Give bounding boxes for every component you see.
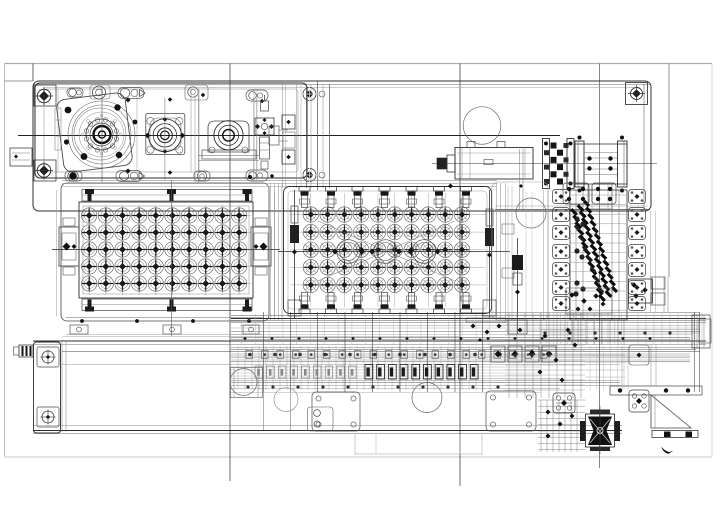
right band extra lines: [585, 354, 625, 356]
gusset foot: [652, 431, 698, 438]
motor vertical centerline: [101, 87, 103, 182]
transfer circles: [230, 369, 257, 396]
dark cluster below tool block: [569, 292, 575, 298]
left tray outer frame: [61, 183, 269, 321]
left plate rail clamps dark: [85, 189, 94, 201]
bottom rail left connector: [19, 345, 33, 357]
center plate outline: [284, 187, 492, 314]
tool block diagonal bar cascade: [570, 208, 578, 216]
pad column right of tool block: [629, 190, 646, 204]
shaft coupling flanged: [575, 144, 627, 184]
dark bolt diamonds bottom row: [126, 169, 131, 174]
flange bearing B2 clamp diamonds: [145, 133, 151, 139]
right corridor verticals x650-656: [650, 211, 652, 312]
vertical section line x=460: [459, 64, 461, 487]
center plate hole grid: [290, 193, 486, 307]
flange checker blocks: [551, 143, 557, 149]
bed bottom edge right: [495, 209, 650, 211]
motor mounting plate: [56, 92, 133, 173]
left edge stack of center bed zone: [282, 115, 295, 129]
coupling pedestal: [588, 184, 612, 209]
carrier corridor verticals x495-550: [507, 186, 509, 320]
vertical edge line x=669: [668, 64, 670, 278]
left plate vertical centerline: [171, 180, 173, 336]
bed surface hole circle: [463, 107, 501, 145]
left tray lower edge lines: [66, 317, 264, 319]
cylinder rear flange: [567, 139, 574, 189]
bed surface hole circle 2: [516, 198, 546, 228]
vertical section line x=600: [599, 64, 601, 469]
tray top transition lines: [62, 180, 497, 182]
gearbox housing plate: [35, 83, 307, 178]
end cap bolt pad top: [37, 347, 59, 367]
end cap bolt pad bottom: [37, 407, 59, 427]
tool block lower extension verticals: [571, 320, 573, 345]
left tray side clamp left: [59, 227, 79, 266]
right band module ticks: [637, 313, 639, 344]
bracket riser lines: [650, 345, 652, 386]
gearbox left protrusion bracket: [10, 148, 32, 166]
transfer rail bottom edge: [33, 425, 622, 427]
cylinder mount verticals: [519, 149, 521, 209]
cylinder rod end: [437, 158, 447, 169]
shaft step right of B3: [269, 126, 279, 145]
center plate big rings: [337, 240, 361, 264]
divider lines between bearings: [194, 95, 196, 183]
bottom bolt pad row: [65, 171, 82, 181]
flange bearing B2 circles: [148, 119, 181, 152]
strip bolt pad top: [303, 88, 316, 101]
gearbox horizontal centerline: [18, 135, 560, 137]
dense cluster lower: [538, 399, 585, 401]
sheet border right line: [711, 64, 713, 458]
center plate right actuator rod: [489, 190, 491, 318]
motor bolt circle ring: [114, 137, 118, 141]
sheet border top line: [5, 63, 713, 65]
left tray feet: [70, 325, 88, 334]
center plate bottom fittings: [299, 309, 310, 314]
bobbin centerline: [599, 406, 601, 454]
pillow block B3 housing: [208, 121, 249, 152]
tool block top pads: [563, 183, 589, 204]
flange bearing B2 corner bolts: [147, 117, 154, 124]
tool block knob clusters: [574, 216, 579, 221]
right side small pads near edge: [651, 277, 665, 289]
bed vertical mounting strip: [306, 84, 308, 188]
rail inner vertical lines: [61, 342, 63, 432]
support bracket top bar: [610, 386, 702, 395]
dark bolt diamonds top row: [126, 98, 131, 103]
carrier rails between plates: [270, 183, 272, 320]
rail drop lines: [263, 392, 265, 430]
left tray side clamp right: [251, 227, 271, 266]
tool block bottom right cluster: [629, 279, 653, 303]
vertical section line x=230: [229, 64, 231, 482]
dark pad row x495-560 y345-365: [491, 346, 505, 362]
left plate hole grid: [81, 205, 251, 295]
right carrier plate light outline: [492, 182, 548, 320]
left plate bottom rail: [82, 299, 252, 311]
cylinder centerline: [432, 163, 657, 165]
strip bolt pad bottom: [303, 169, 316, 182]
support gusset bracket: [651, 395, 691, 428]
rack segment row: [365, 365, 373, 380]
transfer rail long horizontal lines: [460, 312, 700, 314]
swoosh mark bottom right: [661, 447, 674, 454]
sheet border bottom line: [5, 456, 713, 458]
gearbox top-left corner bolt pad: [34, 85, 56, 106]
bearing B2 vertical centerline: [164, 98, 166, 180]
center plate top fittings: [299, 187, 310, 192]
transfer mount pad A2: [308, 407, 334, 431]
chain nut row: [246, 351, 253, 359]
left plate top rail: [82, 190, 252, 202]
transfer mount pad B: [486, 391, 536, 431]
sheet border left line: [4, 64, 6, 458]
top bolt pad row: [67, 88, 83, 97]
cylinder body: [455, 148, 533, 180]
lubricator valve stack: [261, 101, 269, 111]
pads near bottom dark motor: [553, 393, 575, 413]
carrier rails right of center plate: [496, 183, 498, 320]
verticals left of mounting strip: [282, 84, 284, 188]
center plate horizontal centerline: [278, 251, 510, 253]
dark motor bobbin bottom: [586, 414, 615, 447]
pillow block B3 circles: [214, 121, 243, 150]
pad column left of tool block: [553, 190, 570, 204]
transfer left gear box: [231, 368, 263, 398]
bed corner bolt pad top-right: [626, 83, 648, 105]
gearbox left wall details: [55, 108, 61, 150]
dense block right of transfer: [505, 314, 585, 316]
dark cluster near x480 y330: [471, 324, 476, 329]
small dark diamond near x450 on tray top: [448, 184, 453, 189]
pallet outline under rail: [354, 434, 356, 455]
corner step tick top-left: [32, 64, 34, 82]
center plate diagonal lines: [318, 221, 455, 281]
transfer mount pad A: [312, 392, 360, 431]
tool block main body: [570, 190, 627, 320]
flange bearing B2 housing: [146, 114, 185, 155]
cylinder port vents: [467, 142, 475, 148]
eye bolt on top of motor: [93, 86, 106, 99]
cylinder front flange: [543, 139, 550, 189]
left plate horizontal centerline: [52, 249, 280, 251]
slide rod x=517: [517, 238, 519, 334]
left grid plate outline: [79, 202, 253, 298]
bolt dot rows on transfer rail: [243, 337, 247, 341]
gearbox bottom-left corner bolt pad: [34, 160, 56, 181]
transfer module vertical ticks: [263, 312, 265, 392]
bed plate outline: [33, 81, 651, 211]
pillow block B3 base lines: [198, 155, 259, 157]
center plate left actuator rod: [294, 190, 296, 318]
motor corner bolts dark: [65, 107, 72, 114]
bottom rail left end cap: [34, 342, 61, 433]
eye bolt pad: [90, 85, 110, 99]
motor bearing circles: [68, 101, 135, 168]
right rail end cap: [694, 312, 696, 392]
